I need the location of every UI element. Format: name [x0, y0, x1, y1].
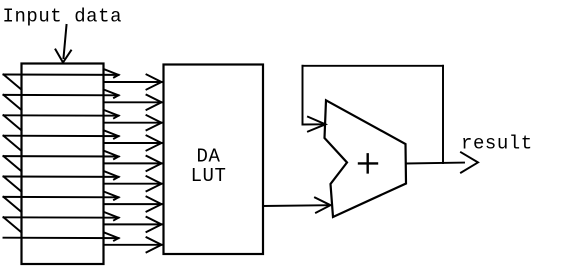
arrowhead shift line 4: [104, 130, 119, 138]
wire shift feedback flag 5: [4, 156, 22, 171]
svg-text:result: result: [461, 133, 533, 155]
wire LUT address bit 2: [104, 101, 162, 103]
arrowhead LUT address bit 8: [147, 217, 162, 232]
wire LUT address bit 5: [104, 162, 162, 164]
wire LUT address bit 3: [104, 122, 162, 124]
wire feedback vertical left: [302, 66, 304, 125]
wire adder output: [406, 162, 464, 165]
wire shift line 2: [4, 94, 119, 96]
wire shift feedback flag 6: [4, 177, 22, 192]
arrowhead LUT output: [315, 198, 331, 213]
wire feedback into adder: [303, 123, 325, 125]
register bank box: [22, 64, 104, 265]
arrowhead LUT address bit 6: [147, 176, 162, 191]
wire shift line 5: [4, 155, 119, 157]
arrowhead feedback into adder: [308, 117, 326, 132]
wire shift feedback flag 3: [4, 115, 22, 130]
arrowhead shift line 1: [104, 69, 119, 77]
arrowhead LUT address bit 2: [147, 95, 162, 110]
arrowhead shift line 3: [104, 110, 119, 118]
svg-text:DA: DA: [197, 145, 221, 167]
wire feedback top: [303, 65, 444, 67]
wire LUT address bit 4: [104, 142, 162, 144]
wire LUT address bit 7: [104, 203, 162, 205]
wire shift feedback flag 4: [4, 136, 22, 151]
arrowhead LUT address bit 4: [147, 136, 162, 151]
wire shift feedback flag 1: [4, 75, 22, 90]
wire shift line 3: [4, 114, 119, 116]
adder U1: [325, 100, 407, 217]
arrowhead shift line 7: [104, 192, 119, 200]
wire shift line 7: [4, 196, 119, 198]
arrowhead shift line 6: [104, 171, 119, 179]
wire input arrow shaft: [64, 25, 67, 58]
wire shift feedback flag 7: [4, 197, 22, 212]
arrowhead input arrow: [56, 50, 72, 63]
svg-text:Input data: Input data: [3, 6, 123, 28]
wire shift line 6: [4, 176, 119, 178]
arrowhead shift line 8: [104, 212, 119, 220]
wire shift line 4: [4, 135, 119, 137]
label plus sign: [359, 154, 377, 172]
arrowhead shift line 9: [104, 232, 119, 240]
arrowhead LUT address bit 1: [147, 75, 162, 90]
arrowhead shift line 2: [104, 90, 119, 98]
wire LUT address bit 6: [104, 183, 162, 185]
arrowhead LUT address bit 5: [147, 156, 162, 171]
wire LUT address bit 9: [104, 244, 162, 246]
arrowhead result arrow: [461, 152, 478, 172]
wire shift line 9: [4, 237, 119, 239]
wire shift feedback flag 8: [4, 217, 22, 232]
wire feedback vertical right: [442, 66, 444, 163]
wire LUT address bit 1: [104, 81, 162, 83]
wire shift line 1: [4, 74, 119, 76]
wire shift line 8: [4, 216, 119, 218]
arrowhead shift line 5: [104, 151, 119, 159]
wire shift feedback flag 2: [4, 95, 22, 110]
arrowhead LUT address bit 3: [147, 115, 162, 130]
wire LUT address bit 8: [104, 223, 162, 225]
arrowhead LUT address bit 9: [147, 237, 162, 252]
wire LUT output to adder: [263, 204, 330, 207]
arrowhead LUT address bit 7: [147, 197, 162, 212]
svg-text:LUT: LUT: [191, 165, 227, 187]
DA LUT box: [164, 65, 264, 255]
